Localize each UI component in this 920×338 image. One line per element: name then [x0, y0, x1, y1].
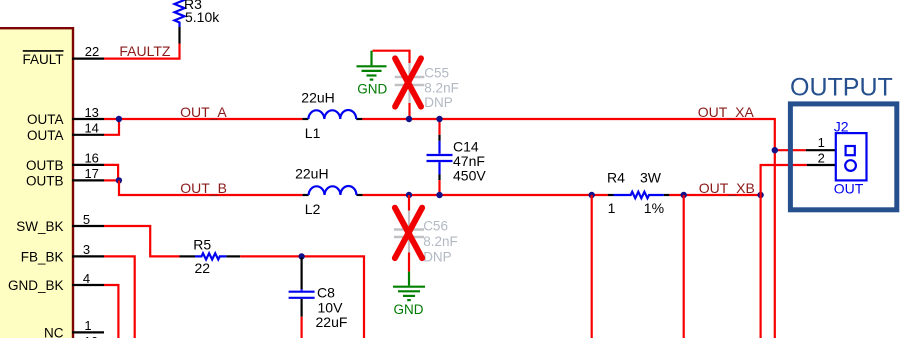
svg-text:FAULT: FAULT	[22, 52, 63, 67]
inductor L1 coil	[308, 110, 356, 119]
pin 22 FAULT stub	[72, 57, 104, 59]
svg-text:FB_BK: FB_BK	[21, 250, 64, 265]
capacitor C14	[438, 135, 440, 141]
wire R4 right to OUT_XB	[669, 194, 760, 196]
capacitor C8	[301, 258, 303, 290]
wire FB_BK down to bottom edge	[104, 256, 135, 338]
svg-text:22uF: 22uF	[316, 314, 348, 330]
svg-text:16: 16	[84, 151, 98, 166]
junction C55/OUT_A	[406, 116, 412, 122]
svg-text:C55: C55	[424, 65, 449, 80]
svg-text:FAULTZ: FAULTZ	[119, 43, 171, 59]
svg-text:10V: 10V	[318, 299, 344, 315]
connector J2 pin1 square pad	[846, 146, 855, 155]
svg-text:OUTPUT: OUTPUT	[790, 73, 893, 101]
ground symbol (C56 branch)	[408, 272, 410, 286]
wire GND_BK down to bottom edge	[104, 285, 118, 338]
pin 14 OUTA stub	[72, 134, 104, 136]
pin 17 OUTB stub	[72, 179, 104, 181]
svg-text:22uH: 22uH	[295, 165, 328, 181]
svg-text:47nF: 47nF	[453, 153, 485, 169]
inductor L2 leads	[303, 194, 309, 196]
svg-text:OUT_A: OUT_A	[180, 104, 227, 120]
wire node down and right: OUT_B to L2	[119, 180, 303, 195]
IC U? body (partial, left edge)	[0, 28, 73, 338]
pin 4 GND_BK stub	[72, 284, 104, 286]
wire OUT_XB junction up and right to J2 pin2	[761, 165, 807, 195]
wire pin14 up to OUT_A node	[104, 119, 119, 135]
inductor L1 leads	[302, 118, 308, 120]
junction R4 right	[681, 192, 687, 198]
wire C8 bottom to bottom edge	[301, 317, 303, 338]
capacitor C56 (DNP, gray)	[408, 211, 410, 229]
wire pin22 to R3	[104, 44, 180, 59]
wire R5 to C8 node and right, down to bottom	[240, 256, 364, 338]
junction C56/OUT_B	[406, 192, 412, 198]
svg-text:13: 13	[84, 105, 98, 120]
svg-text:5.10k: 5.10k	[185, 9, 220, 25]
wire OUT_A from pin13 to L1	[104, 118, 302, 120]
junction C14/OUT_B	[436, 192, 442, 198]
DNP cross X over C56	[395, 208, 422, 258]
svg-text:OUTB: OUTB	[26, 158, 64, 173]
svg-text:GND: GND	[357, 81, 387, 96]
wire OUT_XB junction down to bottom edge	[759, 195, 761, 338]
wire OUT_XA node down to bottom edge	[774, 150, 776, 338]
pin 13 OUTA stub	[72, 118, 104, 120]
resistor R3 lead (black)	[178, 27, 180, 44]
svg-text:1: 1	[818, 135, 825, 150]
connector J2 body	[836, 133, 867, 180]
svg-text:OUTA: OUTA	[27, 128, 64, 143]
svg-text:NC: NC	[44, 326, 64, 338]
svg-text:22: 22	[195, 260, 211, 276]
svg-text:1: 1	[608, 200, 616, 216]
connector J2 pin2 round pad	[845, 160, 856, 171]
resistor R3 zigzag (partial at top)	[175, 0, 185, 27]
svg-text:5: 5	[83, 212, 90, 227]
connector J2 pin 1 wire (black)	[806, 149, 836, 151]
junction pins 16/17	[116, 177, 122, 183]
svg-text:14: 14	[84, 121, 98, 136]
svg-text:1%: 1%	[644, 200, 664, 216]
svg-text:OUT_XA: OUT_XA	[698, 104, 755, 120]
svg-text:GND_BK: GND_BK	[8, 278, 64, 293]
svg-text:OUT_B: OUT_B	[180, 180, 227, 196]
junction pins 13/14	[116, 116, 122, 122]
svg-text:22: 22	[85, 44, 99, 59]
svg-text:450V: 450V	[453, 167, 486, 183]
wire pin17 to node	[104, 179, 119, 181]
junction OUT_XB	[757, 192, 763, 198]
svg-text:C8: C8	[317, 284, 335, 300]
svg-text:L1: L1	[305, 125, 321, 141]
resistor R5 zigzag	[195, 253, 226, 259]
resistor R4 leads	[608, 194, 614, 196]
svg-text:3W: 3W	[640, 169, 662, 185]
wire GND bracket to C55 top	[373, 51, 410, 63]
wire OUT_XA node to J2 pin1	[775, 149, 806, 151]
svg-text:OUT: OUT	[834, 181, 864, 197]
wire R4-left junction down to bottom edge	[591, 195, 593, 338]
connector J2 pin 2 wire (black)	[807, 164, 836, 166]
svg-text:R4: R4	[607, 169, 625, 185]
svg-text:DNP: DNP	[423, 250, 452, 265]
svg-text:22uH: 22uH	[301, 90, 334, 106]
svg-text:8.2nF: 8.2nF	[424, 81, 459, 96]
pin 3 FB_BK stub	[72, 255, 104, 257]
svg-text:10: 10	[84, 334, 98, 338]
junction C14/OUT_A	[436, 116, 442, 122]
wire R4-right junction down to bottom edge	[683, 195, 685, 338]
svg-text:L2: L2	[305, 201, 321, 217]
svg-text:3: 3	[83, 242, 90, 257]
junction C8	[298, 253, 304, 259]
svg-text:GND: GND	[394, 302, 424, 317]
resistor R5 leads	[180, 255, 196, 257]
svg-text:C56: C56	[423, 219, 448, 234]
wire pin16 down to pin17 node	[104, 165, 118, 181]
wire OUT_A junction to C14 top	[438, 119, 440, 135]
resistor R4 zigzag	[614, 192, 664, 198]
pin 1 NC stub	[72, 331, 104, 333]
svg-text:OUT_XB: OUT_XB	[699, 180, 755, 196]
svg-text:2: 2	[818, 150, 825, 165]
svg-text:17: 17	[84, 166, 98, 181]
DNP cross X over C55	[395, 58, 421, 106]
svg-text:8.2nF: 8.2nF	[423, 234, 458, 249]
OUTPUT box frame	[790, 104, 896, 210]
svg-text:4: 4	[83, 271, 90, 286]
wire OUT_A from L1 to right, corner down to J2 pin1 node	[362, 119, 774, 150]
wire C56 bottom to ground	[408, 253, 410, 272]
capacitor C55 (DNP, gray)	[408, 63, 410, 76]
wire C55 bottom to OUT_A	[408, 103, 410, 119]
svg-text:R5: R5	[193, 237, 211, 253]
wire OUT_B junction down to C56	[408, 195, 410, 211]
inductor L2 coil	[309, 186, 357, 195]
svg-text:SW_BK: SW_BK	[16, 219, 63, 234]
wire SW_BK to R5	[104, 226, 180, 256]
svg-text:1: 1	[84, 318, 91, 333]
svg-text:OUTB: OUTB	[26, 174, 64, 189]
junction R4 left	[589, 192, 595, 198]
wire C14 bottom to OUT_B	[438, 180, 440, 195]
svg-text:DNP: DNP	[424, 95, 453, 110]
junction OUT_XA	[772, 147, 778, 153]
pin 5 SW_BK stub	[72, 225, 104, 227]
ground symbol (C55 branch)	[370, 51, 372, 66]
svg-text:OUTA: OUTA	[27, 112, 64, 127]
wire OUT_B from L2 to R4	[363, 194, 608, 196]
svg-text:J2: J2	[834, 118, 849, 134]
pin 16 OUTB stub	[72, 164, 104, 166]
